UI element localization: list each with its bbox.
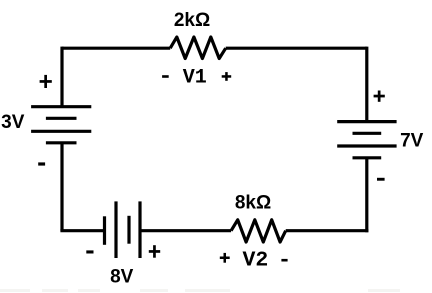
svg-text:8kΩ: 8kΩ (235, 192, 271, 213)
svg-text:8V: 8V (110, 267, 134, 288)
svg-text:V2: V2 (242, 249, 268, 273)
svg-text:V1: V1 (183, 67, 207, 90)
svg-text:2kΩ: 2kΩ (174, 10, 210, 31)
svg-text:7V: 7V (400, 131, 424, 152)
svg-text:3V: 3V (1, 112, 25, 133)
